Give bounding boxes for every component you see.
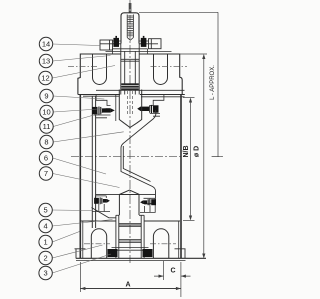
piston guide cup	[119, 90, 141, 128]
clamp bar	[100, 41, 158, 44]
clamp bar end block right	[149, 39, 162, 49]
gland bolt right of cap	[141, 36, 147, 47]
disc	[119, 190, 139, 215]
svg-text:N/B: N/B	[183, 145, 190, 157]
svg-text:13: 13	[42, 57, 50, 66]
bottom port top face	[81, 220, 180, 222]
balloon 9	[40, 89, 53, 102]
bottom flange lip right	[175, 249, 186, 259]
svg-text:10: 10	[42, 108, 50, 117]
bottom seat seal left	[108, 249, 118, 257]
dimension oD line	[180, 54, 207, 259]
seat face lines	[96, 194, 156, 196]
svg-text:7: 7	[44, 169, 48, 178]
dimension A	[80, 262, 180, 297]
bottom seat seal right	[143, 249, 153, 257]
top flange U slot right	[154, 54, 168, 85]
packing stack	[121, 83, 139, 90]
svg-text:12: 12	[41, 74, 49, 83]
balloon 12	[39, 71, 52, 84]
bottom bolt center mark right	[150, 243, 176, 245]
balloon 7	[39, 167, 52, 180]
lower clamp bracket right	[140, 198, 155, 212]
passage upper wall diagonal	[121, 110, 156, 198]
bottom flange U slot right	[153, 229, 168, 259]
lower passage inlet diagonal	[92, 208, 117, 218]
top flange outline	[78, 54, 185, 95]
column ring band 2	[119, 240, 141, 242]
svg-text:ø D: ø D	[193, 146, 200, 157]
bolt center mark right	[151, 65, 188, 67]
svg-text:C: C	[170, 268, 175, 275]
svg-text:A: A	[125, 282, 130, 289]
balloon 2	[39, 251, 52, 264]
dimension NB line	[183, 98, 195, 221]
svg-text:5: 5	[44, 206, 48, 215]
lower clamp bracket left	[92, 196, 110, 212]
gland plate	[106, 49, 172, 61]
svg-text:9: 9	[44, 92, 48, 101]
balloon 4	[39, 219, 52, 232]
bottom flange U slot left	[91, 229, 106, 259]
upper clamp eyebolt left	[92, 107, 115, 115]
gland bolt left of cap	[113, 36, 119, 47]
dimension L approx line	[212, 12, 223, 156]
centerline vertical	[129, 0, 131, 263]
cap (bonnet nut)	[121, 13, 139, 44]
svg-text:11: 11	[43, 122, 51, 131]
balloon 6	[39, 151, 52, 164]
svg-text:2: 2	[44, 254, 48, 263]
internal shoulder line	[83, 95, 185, 98]
svg-text:3: 3	[44, 269, 48, 278]
upper clamp bracket right	[150, 95, 164, 117]
bonnet neck walls	[121, 44, 139, 95]
top flange U slot left	[93, 54, 107, 85]
flange counterbore line	[96, 89, 185, 91]
balloon 1	[39, 235, 52, 248]
upper clamp eyebolt right	[137, 105, 158, 113]
svg-text:4: 4	[44, 222, 48, 231]
seat plate lines	[112, 248, 149, 251]
stem top	[129, 3, 131, 13]
svg-text:14: 14	[42, 40, 50, 49]
body wall left	[79, 95, 81, 259]
balloon 5	[39, 203, 52, 216]
stem hidden line in cup	[128, 91, 133, 116]
clamp bar end block left	[100, 40, 113, 50]
seat right corner	[144, 198, 155, 205]
bottom bolt center mark left	[84, 243, 110, 245]
lower clamp eyebolt right	[140, 199, 156, 206]
dimension C	[154, 261, 191, 280]
balloon 13	[39, 54, 52, 67]
L extension line top	[139, 11, 218, 13]
bottom flange lip left	[75, 249, 86, 259]
lower clamp eyebolt left	[94, 197, 110, 204]
bore wall lines left	[92, 96, 95, 228]
svg-text:8: 8	[44, 138, 48, 147]
inner wall lines below port	[83, 221, 179, 259]
bottom face	[76, 258, 206, 260]
balloon 8	[40, 135, 53, 148]
bottom column	[116, 215, 144, 258]
passage inner wall	[123, 146, 150, 182]
balloon 14	[39, 37, 52, 50]
centerline horizontal	[71, 156, 222, 158]
leader lines	[52, 44, 123, 273]
balloon 10	[40, 105, 53, 118]
svg-text:6: 6	[44, 154, 48, 163]
svg-text:1: 1	[44, 238, 48, 247]
stem threaded column	[127, 15, 133, 41]
bolt center mark left	[68, 65, 99, 67]
column ring band 1	[119, 224, 141, 226]
balloon 3	[39, 266, 52, 279]
balloon 11	[40, 120, 53, 133]
body wall right	[180, 95, 182, 259]
svg-text:L - APPROX.: L - APPROX.	[210, 65, 216, 100]
upper clamp bracket left	[94, 95, 116, 122]
